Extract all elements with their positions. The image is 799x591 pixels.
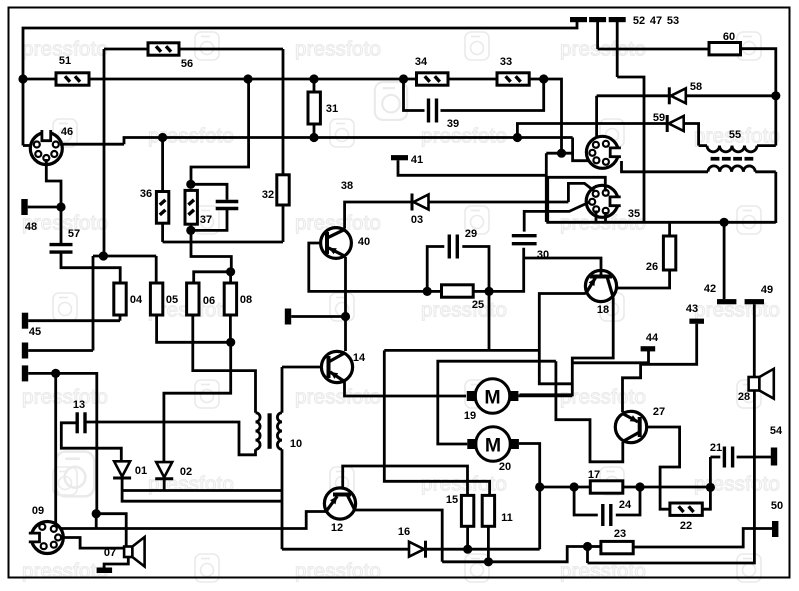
- wire branch terminal 44: [572, 350, 648, 363]
- wire R15 bottom: [466, 526, 469, 549]
- label 52: [633, 15, 645, 27]
- label 34: [415, 56, 428, 68]
- label 25: [472, 299, 484, 311]
- label 41: [411, 154, 423, 166]
- label 43: [686, 303, 698, 315]
- junction y79 x314: [309, 74, 318, 83]
- wire R31 bottom: [313, 124, 316, 138]
- svg-text:55: 55: [729, 129, 741, 141]
- wire y256: [93, 255, 156, 258]
- wire R06 top: [194, 272, 231, 283]
- capacitor 30: [512, 236, 537, 244]
- svg-text:34: 34: [415, 56, 428, 68]
- motor 19: [467, 379, 519, 414]
- wire 55 bottom right: [774, 172, 777, 223]
- wire cap39 left: [404, 79, 425, 111]
- diode 01: [113, 461, 131, 478]
- junction x96 y514: [92, 509, 101, 518]
- terminal 54: [771, 448, 777, 466]
- capacitor 21 left: [710, 456, 720, 459]
- wire long x384: [384, 350, 489, 495]
- wire top bus y28: [23, 22, 577, 146]
- label 38: [341, 180, 353, 192]
- wire R11 bottom: [487, 526, 490, 562]
- capacitor by 37: [216, 202, 239, 209]
- wire y137 jog to tube: [573, 138, 593, 161]
- svg-text:59: 59: [653, 112, 665, 124]
- wire cap39 right: [441, 79, 544, 111]
- wire motor20 left riser: [438, 361, 556, 444]
- wire Q18 base: [523, 258, 601, 277]
- resistor 05: [150, 283, 162, 315]
- label 30: [537, 249, 549, 261]
- wire R31 top: [313, 79, 316, 92]
- wire x56 down: [54, 373, 57, 528]
- transistor Q14: [321, 351, 352, 382]
- junction x776 y96: [771, 91, 780, 100]
- label 33: [500, 56, 512, 68]
- svg-text:45: 45: [29, 326, 41, 338]
- svg-text:pressfoto: pressfoto: [421, 299, 507, 322]
- svg-text:13: 13: [73, 399, 85, 411]
- diode 59: [667, 115, 684, 132]
- wire term3 to x97: [56, 373, 97, 513]
- wire R22 right: [702, 457, 710, 509]
- transistor Q18: [585, 270, 616, 301]
- svg-text:31: 31: [326, 103, 338, 115]
- diode 16: [409, 541, 426, 558]
- svg-text:51: 51: [59, 55, 71, 67]
- svg-text:M: M: [484, 387, 500, 409]
- label 11: [501, 512, 513, 524]
- wire motor20 right: [519, 444, 540, 550]
- resistor 36: [156, 192, 168, 224]
- wire Q18 collector out: [520, 298, 614, 395]
- wire speaker07 ground: [104, 557, 128, 568]
- svg-text:pressfoto: pressfoto: [22, 560, 108, 583]
- terminal 2 left: [22, 343, 93, 359]
- svg-text:pressfoto: pressfoto: [421, 125, 507, 148]
- label 36: [140, 188, 152, 200]
- label 23: [614, 528, 626, 540]
- junction R37 top: [186, 180, 195, 189]
- capacitor 29: [449, 235, 457, 259]
- svg-text:01: 01: [135, 465, 147, 477]
- wire 46 left: [23, 144, 32, 147]
- svg-text:21: 21: [710, 442, 722, 454]
- resistor 33: [497, 73, 529, 85]
- label 05: [166, 294, 178, 306]
- svg-text:09: 09: [32, 505, 44, 517]
- label 12: [331, 522, 343, 534]
- diode 02: [155, 462, 173, 479]
- wire x104: [103, 49, 106, 256]
- terminal 47: [589, 17, 606, 49]
- svg-text:03: 03: [411, 214, 423, 226]
- label 03: [411, 214, 423, 226]
- terminal mid left: [285, 309, 346, 325]
- wire dot to speaker07: [96, 514, 126, 546]
- label 24: [619, 499, 632, 511]
- wire 46 bottom stem: [46, 159, 61, 244]
- label 46: [61, 126, 73, 138]
- junction x488 y562: [484, 557, 493, 566]
- wire R08 dot to D02: [164, 342, 231, 461]
- junction x540 y487: [535, 482, 544, 491]
- resistor 31: [308, 92, 320, 124]
- label 02: [180, 466, 192, 478]
- label 04: [130, 294, 143, 306]
- wire Q27 base: [647, 427, 680, 509]
- resistor 32: [277, 175, 289, 205]
- wire R23 left: [588, 545, 601, 548]
- svg-text:53: 53: [667, 15, 679, 27]
- transistor Q12: [324, 488, 355, 519]
- wire Q14 base: [282, 366, 321, 369]
- svg-text:35: 35: [628, 208, 640, 220]
- terminal 41: [391, 155, 546, 175]
- label 16: [398, 526, 410, 538]
- label 59: [653, 112, 665, 124]
- junction x345 y316: [341, 312, 350, 321]
- label 49: [761, 284, 773, 296]
- svg-text:58: 58: [690, 81, 702, 93]
- wire R08 top: [229, 272, 232, 283]
- svg-text:54: 54: [770, 425, 783, 437]
- wire 57 bottom: [61, 252, 120, 283]
- terminal 49: [745, 299, 764, 304]
- resistor 22: [670, 503, 702, 515]
- wire y77 53path: [617, 77, 644, 223]
- wire y350 bus: [384, 349, 539, 352]
- label 26: [646, 261, 658, 273]
- capacitor 39: [429, 99, 437, 123]
- svg-text:37: 37: [200, 214, 212, 226]
- label 60: [723, 31, 735, 43]
- label 19: [464, 410, 476, 422]
- label 50: [771, 500, 783, 512]
- wire y49 to R60: [598, 48, 709, 51]
- junction R37 bottom: [186, 226, 195, 235]
- transformer 10: [256, 413, 283, 450]
- svg-text:pressfoto: pressfoto: [22, 386, 108, 409]
- svg-text:40: 40: [358, 236, 370, 248]
- capacitor by 37 top lead: [191, 184, 227, 200]
- junction y79 x544: [539, 74, 548, 83]
- wire y79 to x561: [544, 79, 562, 153]
- svg-text:M: M: [485, 435, 501, 457]
- svg-text:23: 23: [614, 528, 626, 540]
- label 32: [262, 189, 274, 201]
- wire y242: [163, 241, 283, 244]
- resistor 06: [187, 283, 199, 315]
- wire D01 row A: [122, 489, 282, 492]
- wire speaker28 down: [588, 391, 755, 564]
- capacitor 57: [50, 245, 73, 253]
- junction x231 y272: [226, 267, 235, 276]
- capacitor 29 loop: [427, 247, 489, 292]
- junction x710 y487: [706, 483, 715, 492]
- svg-text:05: 05: [166, 294, 178, 306]
- wire R04 bottom: [119, 315, 122, 321]
- svg-text:16: 16: [398, 526, 410, 538]
- wire y222 bus: [546, 221, 776, 224]
- label 06: [203, 295, 215, 307]
- terminal 44: [641, 346, 656, 351]
- junction x103 y256: [99, 251, 108, 260]
- svg-text:17: 17: [588, 469, 600, 481]
- svg-text:46: 46: [61, 126, 73, 138]
- svg-text:12: 12: [331, 522, 343, 534]
- terminal 52: [570, 17, 587, 22]
- svg-text:19: 19: [464, 410, 476, 422]
- capacitor 13: [77, 412, 85, 433]
- label 40: [358, 236, 370, 248]
- wire cap21 right: [737, 456, 772, 459]
- wire Q12 emitter: [59, 512, 326, 529]
- wire 55 bottom left: [622, 161, 691, 172]
- wire 43 stem: [623, 324, 697, 412]
- wire D59 left: [517, 124, 667, 138]
- wire motor19 right: [518, 394, 572, 397]
- svg-text:49: 49: [761, 284, 773, 296]
- label 54: [770, 425, 783, 437]
- wire terminal 50 stem: [633, 529, 772, 548]
- terminal 42: [717, 222, 736, 304]
- svg-text:02: 02: [180, 466, 192, 478]
- svg-text:06: 06: [203, 295, 215, 307]
- wire Q40 emitter down: [344, 257, 347, 351]
- capacitor 24 loop: [574, 487, 640, 515]
- label 10: [290, 438, 302, 450]
- label 14: [353, 352, 366, 364]
- label 55: [729, 129, 741, 141]
- svg-text:47: 47: [650, 15, 662, 27]
- label 44: [646, 332, 659, 344]
- wire x547 down: [545, 153, 548, 222]
- terminal 43: [689, 319, 704, 324]
- wire R06 bottom: [193, 315, 256, 413]
- terminal 53: [609, 17, 626, 77]
- wire Q40 collector: [345, 202, 414, 229]
- wire T10 right bottom: [281, 449, 284, 549]
- wire R36 bottom: [161, 223, 164, 242]
- wire Q12 collector: [355, 510, 442, 562]
- svg-text:33: 33: [500, 56, 512, 68]
- wire y487 bus: [540, 486, 711, 489]
- svg-text:44: 44: [646, 332, 659, 344]
- label 37: [200, 214, 212, 226]
- label 47: [650, 15, 662, 27]
- svg-text:04: 04: [130, 294, 143, 306]
- wire tube35 NW zigzag: [568, 183, 595, 202]
- svg-text:24: 24: [619, 499, 632, 511]
- junction y222 x724: [720, 218, 729, 227]
- speaker 07: [124, 537, 145, 567]
- capacitor 24: [603, 504, 611, 526]
- diode 03: [412, 194, 429, 211]
- resistor 56: [148, 43, 179, 55]
- wire R37 bottom chain: [191, 224, 231, 272]
- label 09: [32, 505, 44, 517]
- wire x93 down: [92, 256, 95, 351]
- wire Q12 base net: [343, 466, 468, 495]
- diode 58: [669, 87, 686, 104]
- junction R25 right: [484, 287, 493, 296]
- wire tube top x596: [595, 96, 598, 144]
- svg-text:25: 25: [472, 299, 484, 311]
- wire D59 right: [684, 124, 699, 146]
- resistor 60: [709, 43, 741, 55]
- wire dot down to y528: [95, 514, 98, 529]
- wire 46 right: [60, 143, 124, 146]
- label 35: [628, 208, 640, 220]
- wire R32 bottom stem: [282, 205, 285, 242]
- resistor 08: [224, 283, 236, 315]
- wire diode16 right: [427, 548, 540, 551]
- label 51: [59, 55, 71, 67]
- svg-text:32: 32: [262, 189, 274, 201]
- connector 09: [28, 522, 63, 554]
- svg-text:48: 48: [25, 221, 37, 233]
- wire Q14 emitter: [345, 382, 467, 397]
- junction R23 left: [583, 542, 592, 551]
- wire y153: [546, 152, 572, 155]
- wire tube35 SE: [604, 212, 607, 222]
- label 15: [446, 494, 458, 506]
- label 48: [25, 221, 37, 233]
- resistor 15: [461, 495, 473, 526]
- wire D02 bottom: [163, 479, 166, 490]
- transformer 55: [690, 146, 776, 172]
- wire diode 03 line: [427, 201, 568, 204]
- label 21: [710, 442, 722, 454]
- motor 20: [467, 427, 519, 462]
- wire T10 right top: [281, 367, 284, 413]
- junction x561 y153: [557, 149, 566, 158]
- label 22: [680, 520, 692, 532]
- wire tube35 SW: [595, 211, 598, 222]
- resistor 04: [114, 283, 126, 315]
- wire 49 to speaker: [753, 304, 756, 377]
- wire R25dot to cap30: [489, 248, 524, 292]
- transistor Q27: [615, 411, 646, 442]
- capacitor by 37 bottom lead: [191, 209, 227, 231]
- terminal 45: [22, 313, 120, 329]
- svg-text:42: 42: [704, 283, 716, 295]
- wire D58 to right: [686, 94, 776, 97]
- label 17: [588, 469, 600, 481]
- wire y96 to D58: [597, 94, 670, 97]
- junction x640 y487: [635, 482, 644, 491]
- wire D01 bottom: [122, 478, 282, 501]
- junction x56 y373: [51, 369, 60, 378]
- svg-text:38: 38: [341, 180, 353, 192]
- label 08: [240, 294, 252, 306]
- wire R08 bottom: [229, 315, 232, 342]
- svg-text:10: 10: [290, 438, 302, 450]
- svg-text:56: 56: [181, 58, 193, 70]
- svg-text:27: 27: [653, 406, 665, 418]
- wire T10 left bottom: [85, 422, 256, 455]
- junction y79 x23: [18, 74, 27, 83]
- svg-text:43: 43: [686, 303, 698, 315]
- label 57: [68, 228, 80, 240]
- junction R15 bottom: [463, 545, 472, 554]
- svg-text:07: 07: [104, 547, 116, 559]
- svg-text:28: 28: [738, 391, 750, 403]
- junction y137 x517: [513, 133, 522, 142]
- resistor 51: [56, 73, 89, 85]
- label 20: [499, 461, 511, 473]
- svg-text:41: 41: [411, 154, 423, 166]
- svg-text:36: 36: [140, 188, 152, 200]
- wire R05 bottom: [157, 315, 231, 342]
- label 42: [704, 283, 716, 295]
- svg-text:08: 08: [240, 294, 252, 306]
- resistor 25: [427, 285, 489, 297]
- label 31: [326, 103, 338, 115]
- svg-text:11: 11: [501, 512, 513, 524]
- wire R36 top: [161, 138, 164, 192]
- label 45: [29, 326, 41, 338]
- wire x283 to R32: [282, 49, 285, 175]
- label 56: [181, 58, 193, 70]
- label 13: [73, 399, 85, 411]
- speaker 28: [749, 369, 774, 399]
- ground blob: [97, 568, 113, 574]
- tube 35: [586, 185, 621, 217]
- svg-text:20: 20: [499, 461, 511, 473]
- wire 09 east zigzag: [60, 538, 124, 549]
- label 58: [690, 81, 702, 93]
- svg-text:22: 22: [680, 520, 692, 532]
- label 53: [667, 15, 679, 27]
- resistor 23: [601, 541, 633, 553]
- svg-text:15: 15: [446, 494, 458, 506]
- resistor 37: [185, 190, 197, 224]
- label 27: [653, 406, 665, 418]
- wire x489 down: [488, 291, 491, 350]
- svg-text:60: 60: [723, 31, 735, 43]
- junction x61 y207: [56, 202, 65, 211]
- terminal 48: [21, 199, 61, 215]
- label 39: [447, 118, 459, 130]
- svg-text:18: 18: [597, 304, 609, 316]
- svg-text:26: 26: [646, 261, 658, 273]
- junction y79 x403: [399, 74, 408, 83]
- wire Q40 base: [309, 243, 427, 291]
- wire R60 right: [741, 49, 776, 146]
- svg-text:14: 14: [353, 352, 366, 364]
- label 18: [597, 304, 609, 316]
- svg-text:29: 29: [465, 228, 477, 240]
- junction R25 left: [423, 287, 432, 296]
- wire R26 bottom: [618, 270, 670, 288]
- svg-text:57: 57: [68, 228, 80, 240]
- svg-text:pressfoto: pressfoto: [694, 299, 780, 322]
- wire y49 bus: [104, 48, 283, 51]
- wire Q18 emitter out: [539, 294, 586, 384]
- wire cap30 top: [524, 202, 589, 232]
- wire dot to y563: [586, 547, 589, 564]
- resistor 11: [482, 495, 494, 526]
- svg-text:pressfoto: pressfoto: [295, 560, 381, 583]
- tube V1: [586, 136, 621, 168]
- wire cap13 left: [61, 423, 121, 461]
- label 07: [104, 547, 116, 559]
- svg-text:52: 52: [633, 15, 645, 27]
